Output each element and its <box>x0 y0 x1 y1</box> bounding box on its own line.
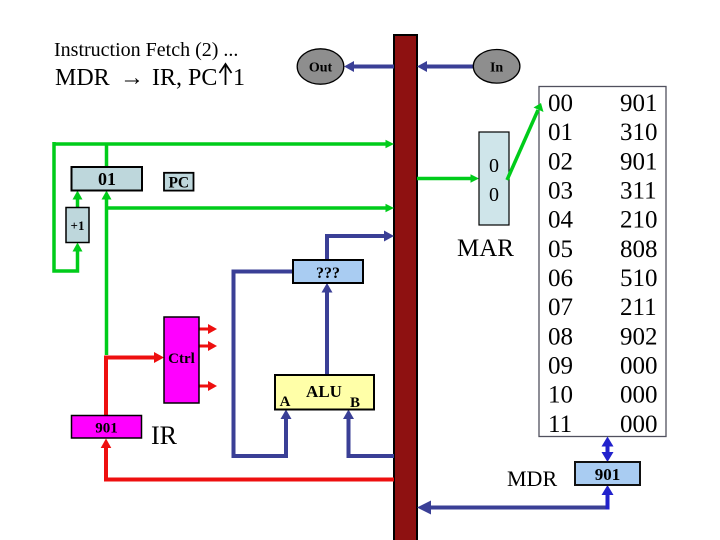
svg-text:B: B <box>350 395 360 411</box>
incrementer +1 box <box>66 208 89 243</box>
wire blue: MDR to bus (horizontal) <box>417 501 608 515</box>
register MAR box with 0 0 <box>479 132 509 225</box>
memory table rows <box>548 90 658 438</box>
ellipse Out <box>297 49 344 84</box>
svg-text:06: 06 <box>548 265 573 292</box>
wire green: MAR diagonal to memory table <box>507 103 544 180</box>
wire red: Ctrl output arrow 1 <box>199 324 217 334</box>
svg-text:808: 808 <box>620 236 658 263</box>
svg-text:02: 02 <box>548 148 573 175</box>
wire Out arrow (bus to Out) <box>344 61 394 72</box>
svg-text:Ctrl: Ctrl <box>168 351 195 367</box>
wire green: top horizontal to bus <box>54 140 394 149</box>
svg-text:01: 01 <box>548 119 573 146</box>
svg-text:04: 04 <box>548 207 574 234</box>
wire green: bus to MAR <box>417 174 479 183</box>
register ??? box <box>293 260 363 283</box>
svg-text:05: 05 <box>548 236 573 263</box>
svg-text:MDR: MDR <box>55 65 110 91</box>
svg-text:MDR: MDR <box>507 466 557 491</box>
svg-text:IR, PC: IR, PC <box>152 65 217 91</box>
up arrow glyph of PC+1 <box>220 64 232 85</box>
svg-text:PC: PC <box>168 175 189 192</box>
svg-text:MAR: MAR <box>457 235 514 262</box>
wire blue: ??? to bus <box>327 231 394 263</box>
svg-text:211: 211 <box>620 294 657 321</box>
register MDR value box 901 <box>575 462 640 485</box>
svg-text:A: A <box>280 394 291 410</box>
wire blue bright: vertical up into MDR box <box>602 485 614 510</box>
ALU box <box>275 375 374 411</box>
svg-text:901: 901 <box>620 90 658 117</box>
svg-text:311: 311 <box>620 178 657 205</box>
control unit Ctrl box <box>164 317 199 403</box>
wire red: Ctrl output arrow 2 <box>199 341 217 351</box>
wire blue: ??? left loop down to ALU A input <box>234 272 294 457</box>
wire blue bright: double arrow memory to MDR <box>602 437 614 463</box>
svg-text:00: 00 <box>548 90 573 117</box>
svg-text:000: 000 <box>620 353 658 380</box>
wire green: from top line down into PC register top <box>105 144 109 167</box>
wire red: Ctrl output arrow 3 <box>199 381 217 391</box>
label PC box <box>164 173 194 192</box>
wire red: bus to IR <box>101 439 394 480</box>
svg-text:510: 510 <box>620 265 658 292</box>
svg-text:1: 1 <box>233 65 245 91</box>
svg-text:Instruction Fetch (2) ...: Instruction Fetch (2) ... <box>54 39 238 61</box>
svg-text:08: 08 <box>548 323 573 350</box>
svg-text:Out: Out <box>309 61 333 76</box>
wire blue: bus to ALU B input <box>343 410 394 457</box>
svg-text:09: 09 <box>548 353 573 380</box>
svg-text:901: 901 <box>595 465 621 484</box>
svg-text:310: 310 <box>620 119 658 146</box>
svg-text:→: → <box>120 65 144 91</box>
svg-text:03: 03 <box>548 178 573 205</box>
svg-text:901: 901 <box>95 421 118 437</box>
svg-text:0: 0 <box>489 155 499 177</box>
wire blue: ALU output up to ??? <box>322 283 333 375</box>
svg-text:902: 902 <box>620 323 658 350</box>
svg-text:000: 000 <box>620 382 658 409</box>
svg-text:0: 0 <box>489 184 499 206</box>
wire green: second horizontal to bus <box>107 204 395 213</box>
memory table box <box>539 87 666 437</box>
svg-text:???: ??? <box>316 265 340 282</box>
svg-text:IR: IR <box>151 421 178 450</box>
wire green: long vertical from PC register bottom down <box>102 191 112 356</box>
svg-text:10: 10 <box>548 382 573 409</box>
register PC value box 01 <box>72 167 143 191</box>
svg-text:ALU: ALU <box>306 382 342 401</box>
bus (dark red vertical bar) <box>394 35 417 540</box>
svg-text:901: 901 <box>620 148 658 175</box>
svg-text:210: 210 <box>620 207 658 234</box>
svg-text:In: In <box>490 61 503 76</box>
wire green: +1 output up into PC register <box>73 191 83 208</box>
ellipse In <box>473 50 520 84</box>
wire red: IR up to Ctrl <box>106 352 164 416</box>
register IR value box 901 <box>72 416 142 439</box>
svg-text:+1: +1 <box>71 218 85 233</box>
wire In arrow (In to bus) <box>417 61 473 72</box>
svg-text:11: 11 <box>548 411 572 438</box>
wire green: left vertical + bottom jog to +1 <box>54 142 83 271</box>
svg-text:000: 000 <box>620 411 658 438</box>
svg-text:01: 01 <box>98 169 116 189</box>
svg-text:07: 07 <box>548 294 573 321</box>
